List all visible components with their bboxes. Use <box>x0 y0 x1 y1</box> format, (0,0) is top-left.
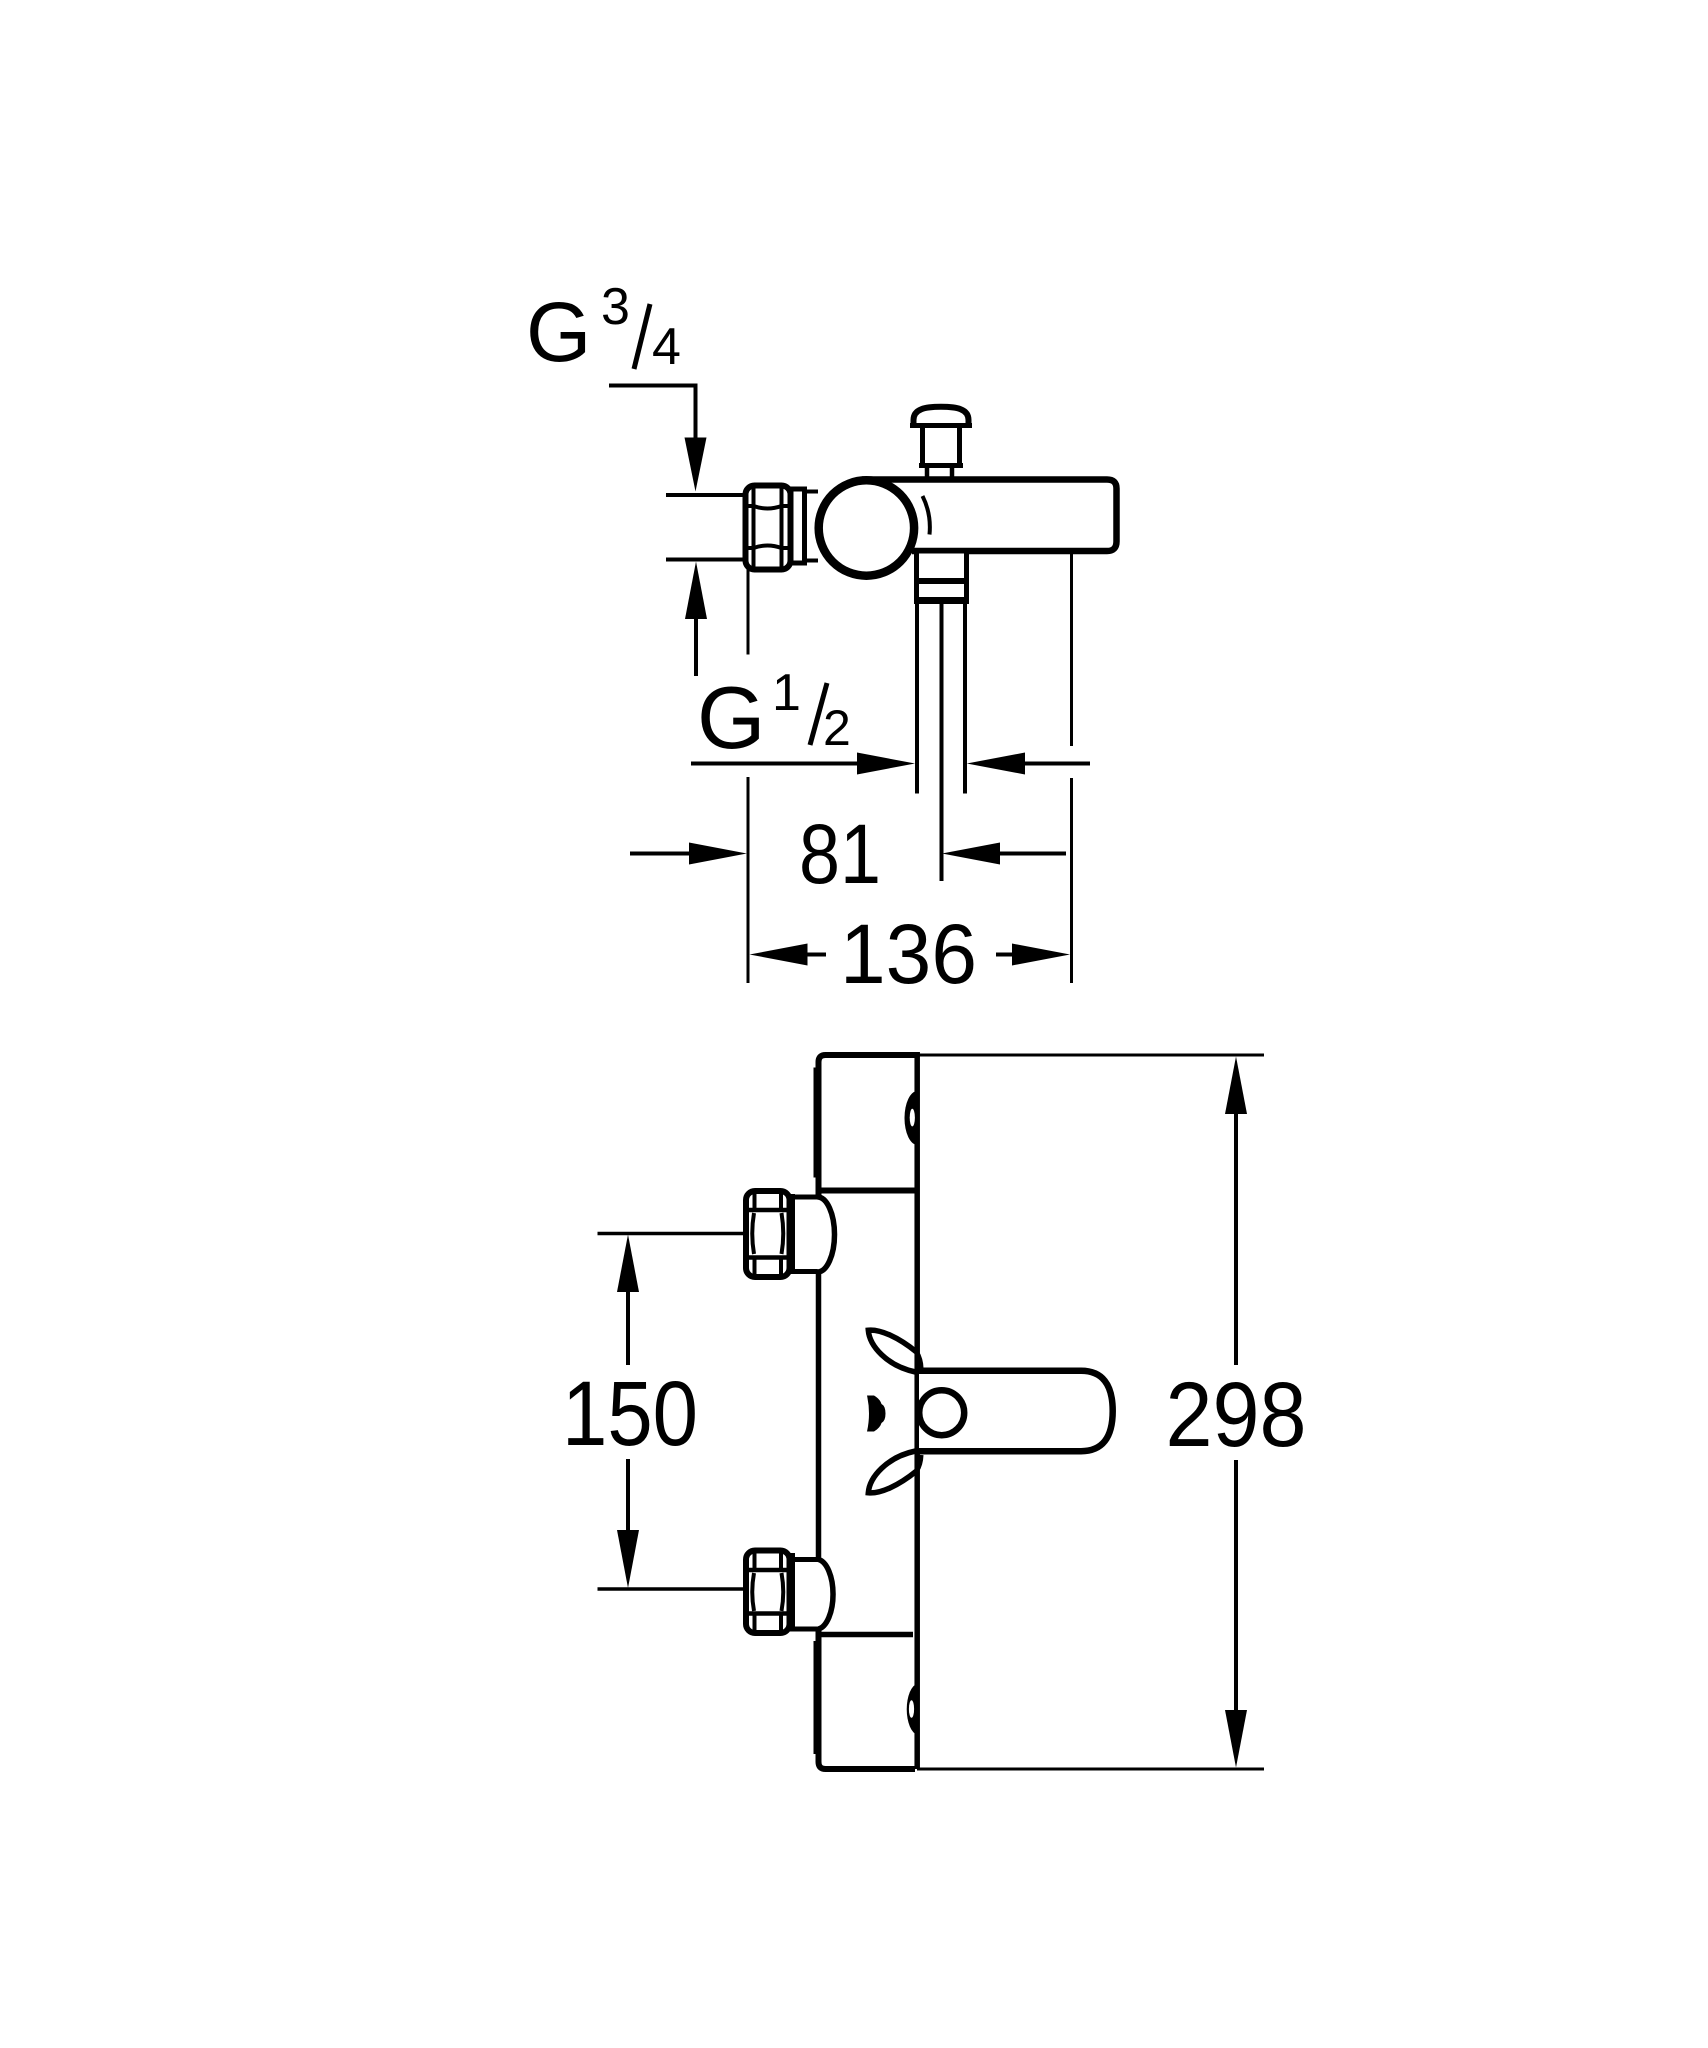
svg-text:1: 1 <box>772 664 801 722</box>
top extension line for 298 <box>917 1054 1264 1057</box>
diverter knob cap <box>914 407 969 427</box>
union nut (side view) <box>746 486 791 570</box>
body bottom edge <box>819 1629 916 1769</box>
body left edge middle <box>816 1273 822 1560</box>
upper lever tip leaf <box>868 1330 916 1372</box>
mixer body barrel <box>862 480 1117 552</box>
leader line from G 3/4 <box>609 386 696 449</box>
lower supply dome <box>790 1557 819 1562</box>
lower supply nut (front) <box>746 1551 790 1634</box>
svg-text:150: 150 <box>562 1363 698 1465</box>
top cap strip <box>814 1068 819 1178</box>
label G 1/2 <box>697 664 851 767</box>
arc detail on body <box>923 496 930 535</box>
inlet pipe bottom line <box>666 558 746 562</box>
lever circle <box>919 1390 964 1435</box>
bottom cap strip <box>814 1641 819 1754</box>
lever crescent mark <box>867 1396 886 1432</box>
extension line left (from nut) upper part <box>747 570 750 655</box>
collar between nut and joint <box>791 489 805 563</box>
diverter knob stem <box>920 428 925 464</box>
body top edge <box>819 1055 916 1196</box>
dimension 298 <box>1225 1057 1247 1115</box>
fraction slash of G 1/2 <box>810 683 827 745</box>
dimension 150 <box>598 1232 747 1236</box>
upper supply dome <box>790 1195 818 1200</box>
link lines collar to joint <box>805 490 819 494</box>
dimension 81 <box>630 852 690 856</box>
lever U shape <box>919 1371 1113 1451</box>
svg-text:298: 298 <box>1166 1364 1307 1466</box>
joint circle <box>819 480 914 575</box>
dimension line G 1/2 (right part) <box>967 753 1025 775</box>
fraction slash of G 3/4 <box>634 304 650 369</box>
svg-text:G: G <box>526 285 591 379</box>
upper supply nut (front) <box>746 1191 790 1277</box>
svg-text:G: G <box>697 668 765 767</box>
extension line right of body <box>1070 551 1073 746</box>
top cap shoulder <box>816 1188 915 1194</box>
body right edge <box>914 1052 920 1769</box>
extension line left (from nut) lower part <box>747 777 750 983</box>
svg-text:136: 136 <box>840 907 977 1001</box>
svg-text:81: 81 <box>799 807 881 901</box>
label G 3/4 <box>526 278 681 379</box>
shower hose edge lines <box>915 604 919 794</box>
bottom extension line for 298 <box>917 1768 1264 1771</box>
svg-text:3: 3 <box>601 278 630 336</box>
lower lever tip leaf <box>868 1451 916 1493</box>
dimension line G 1/2 (left part) <box>691 762 860 766</box>
up arrow under pipe <box>685 562 707 620</box>
bottom shoulder <box>816 1632 913 1638</box>
lower port crescent <box>907 1684 918 1736</box>
inlet pipe top line <box>666 493 746 497</box>
leader arrowhead (down) <box>685 438 707 492</box>
upper port crescent <box>905 1091 918 1145</box>
hose centre line <box>940 604 944 881</box>
diverter knob neck <box>925 467 930 478</box>
dimension 136 <box>750 944 808 966</box>
outlet connector below body <box>917 551 967 601</box>
svg-text:2: 2 <box>823 700 851 756</box>
svg-text:4: 4 <box>652 318 681 376</box>
